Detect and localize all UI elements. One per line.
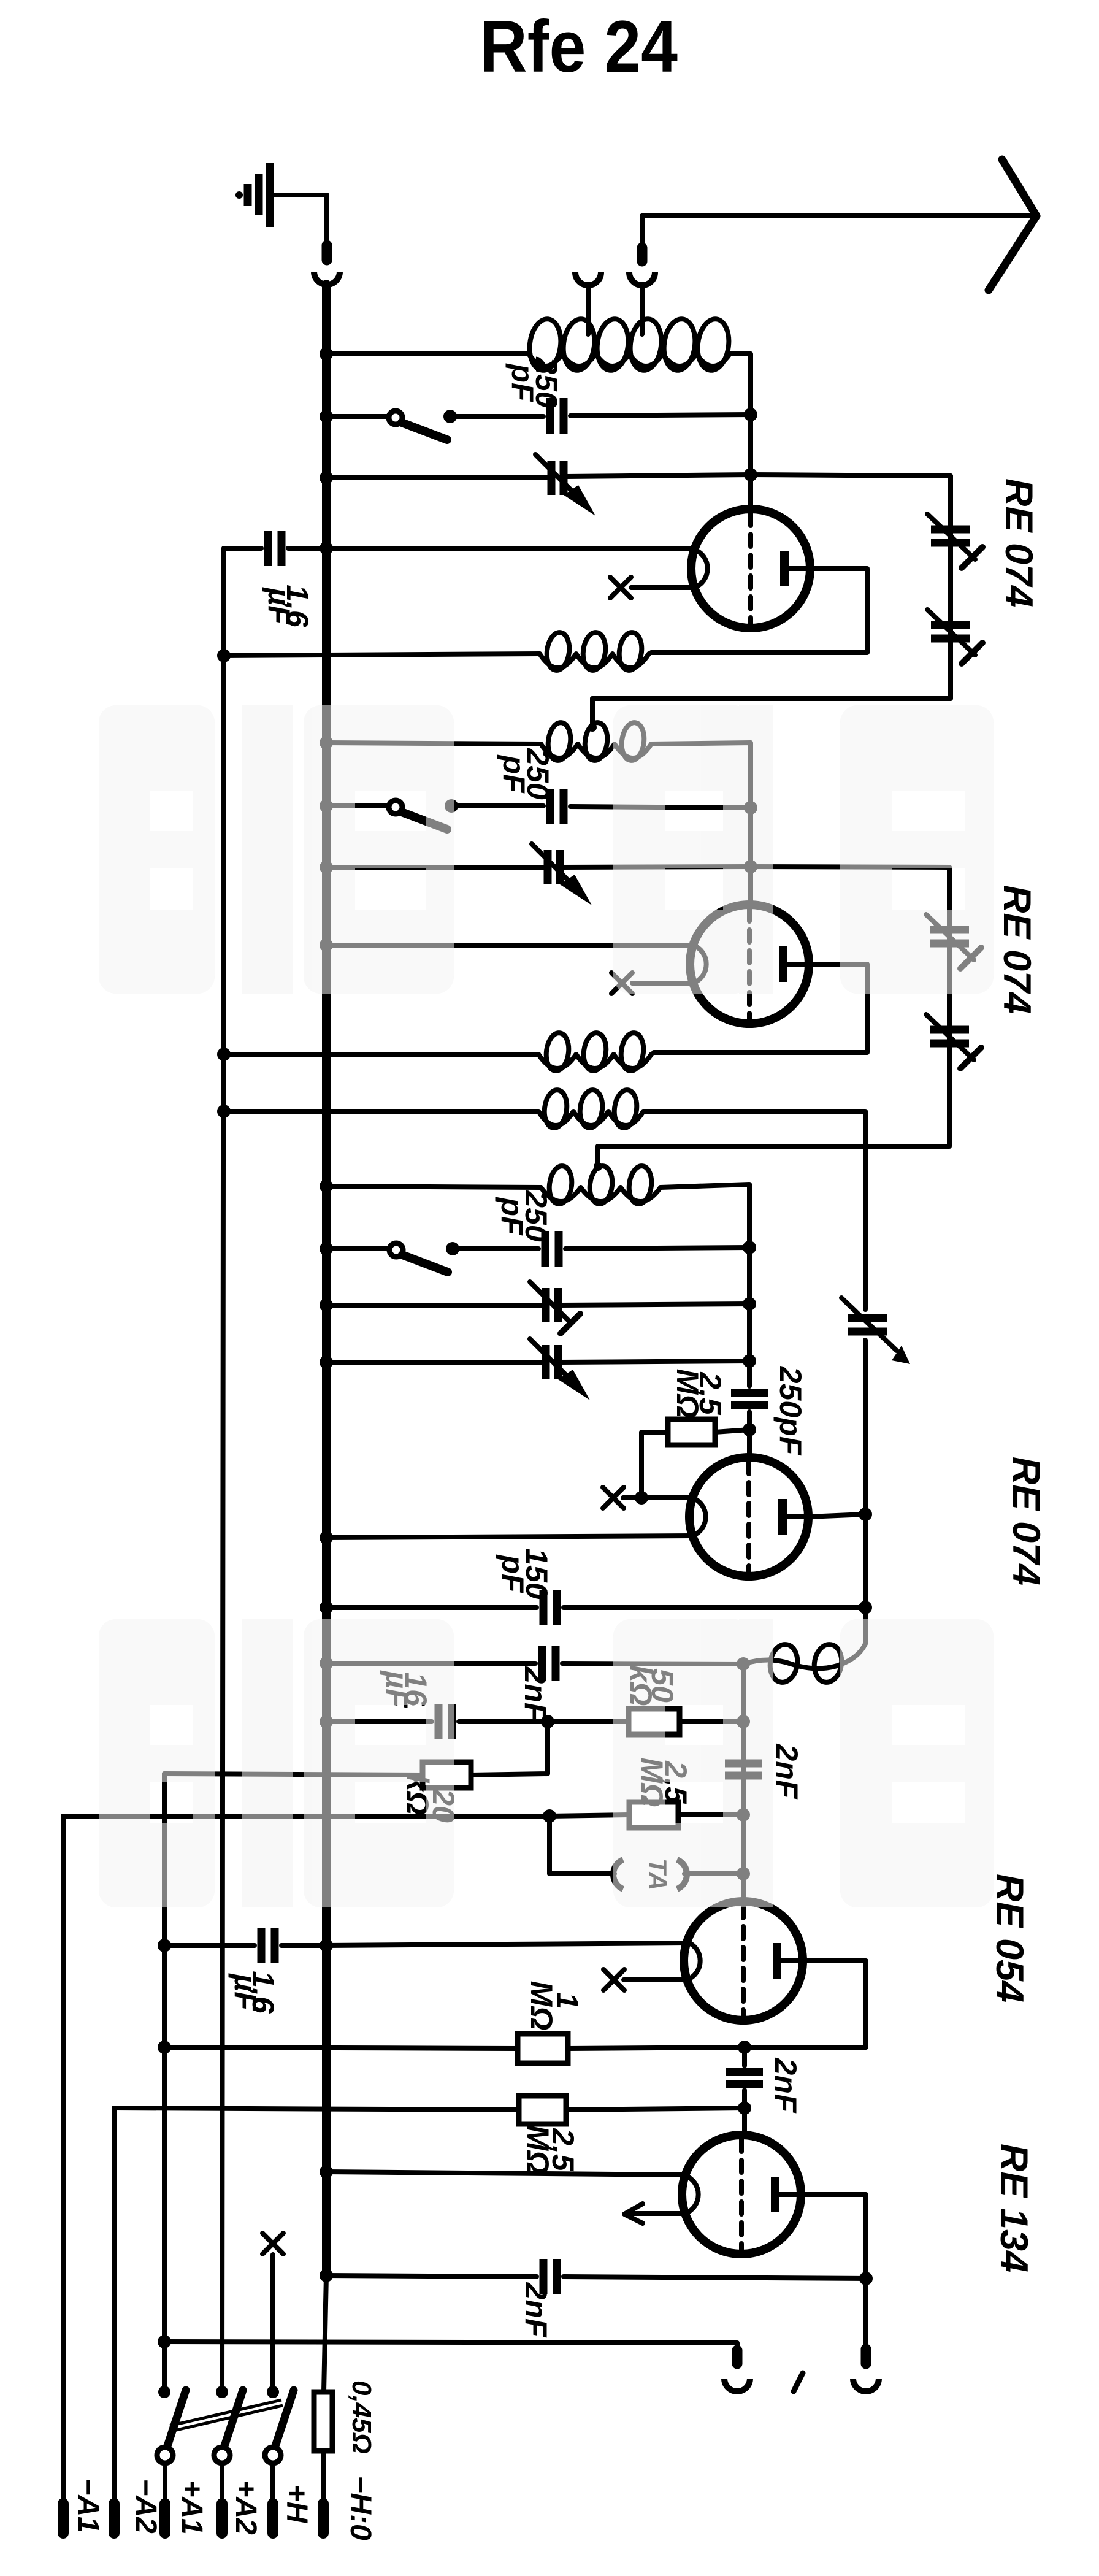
- wire +A2 rail to tickler coil L6: [224, 1109, 538, 1114]
- node +A2 rail L3: [217, 649, 231, 662]
- battery switch pivot 2: [214, 2447, 230, 2463]
- node +A1-output line: [158, 2335, 171, 2348]
- jack socket output right: [853, 2379, 879, 2391]
- wire TA branch down and right: [549, 1816, 615, 1874]
- node +A2 rail L6: [217, 1105, 231, 1118]
- wire ground to plug pin: [274, 195, 327, 244]
- wire grid lead tube V4: [741, 1874, 746, 1903]
- terminal +H: [267, 2504, 278, 2533]
- resistor R5 1 Mohm: [518, 2034, 568, 2063]
- wire CV3 to grid node 3: [561, 1304, 749, 1305]
- wire down to choke L7: [863, 1608, 868, 1644]
- rail +A1: [162, 1774, 167, 2391]
- svg-text:RE 074: RE 074: [997, 478, 1040, 607]
- wire output left line: [164, 2342, 737, 2363]
- svg-text:Rfe 24: Rfe 24: [480, 6, 678, 88]
- wire CV5 down to V3 plate node: [863, 1340, 868, 1512]
- svg-text:RE 054: RE 054: [988, 1874, 1031, 2003]
- wire C8 to resistor R2: [459, 1719, 629, 1724]
- svg-text:pF: pF: [496, 1554, 530, 1593]
- wire R5 to V5 grid node: [568, 2047, 745, 2049]
- wire CV1 to grid node: [566, 475, 751, 477]
- ground symbol: [235, 163, 270, 227]
- node switch S3 contact: [446, 1242, 459, 1255]
- wire +A1 rail to resistor R3: [164, 1774, 423, 1775]
- trimmer capacitor CT3: [926, 914, 981, 968]
- node AF chain R2: [737, 1715, 750, 1728]
- wire +A1 rail to capacitor C10: [164, 1943, 255, 1948]
- svg-text:+A2: +A2: [229, 2480, 262, 2535]
- wire trimmer branch down and left to L2 tap: [592, 476, 951, 699]
- node bus-C8: [320, 1715, 333, 1728]
- wire C12 to output node: [564, 2277, 866, 2279]
- wire bus to switch S1: [326, 414, 389, 419]
- inductor L1 (antenna coil): [527, 317, 732, 372]
- wire bus to variable capacitor CV2: [326, 865, 545, 870]
- wire +A1 rail to resistor R5: [164, 2047, 518, 2049]
- wire x to tube V3 filament top: [623, 1495, 692, 1500]
- heater arrow lead V5: [624, 2204, 685, 2223]
- wire bus to antenna coil L1: [326, 351, 529, 356]
- wire plate node down to C6 node: [863, 1514, 868, 1606]
- inductor L3 (T2 primary): [540, 631, 649, 672]
- svg-text:2nF: 2nF: [770, 1744, 804, 1800]
- switch S3 (range switch): [389, 1243, 448, 1272]
- plug pin (antenna): [637, 248, 648, 261]
- node AF chain TA: [737, 1867, 750, 1880]
- wire bus to variable capacitor CV4: [326, 1360, 543, 1365]
- main bus (grounded filament rail): [322, 284, 331, 2275]
- resistor R1 2.5 Mohm (grid leak): [668, 1419, 715, 1445]
- heater supply x mark: [262, 2233, 283, 2254]
- variable capacitor CV4: [530, 1339, 590, 1400]
- variable capacitor CV5 (regeneration): [841, 1298, 910, 1364]
- node choke left: [737, 1657, 750, 1671]
- svg-text:pF: pF: [505, 362, 540, 402]
- wire C4 to grid node 3: [565, 1248, 749, 1249]
- wire S3 to C4: [453, 1246, 538, 1251]
- wire V4 plate to grid node V5: [745, 1961, 866, 2047]
- svg-text:0,45Ω: 0,45Ω: [347, 2380, 377, 2454]
- svg-text:RE 074: RE 074: [1005, 1457, 1047, 1585]
- node output right: [859, 2272, 873, 2285]
- node bus-CV3: [320, 1298, 333, 1312]
- wire bus to coil L2: [326, 743, 541, 744]
- node +A2 rail L5: [217, 1048, 231, 1061]
- wire pivot1 to terminal: [163, 2463, 167, 2506]
- capacitor C12 2nF: [543, 2259, 557, 2294]
- switch pole pin +A1: [158, 2386, 170, 2398]
- wire -A2 rail to resistor R6: [114, 2108, 519, 2110]
- resistor R6 2.5 Mohm: [519, 2096, 566, 2124]
- svg-text:250pF: 250pF: [773, 1366, 808, 1456]
- node L4 tap: [594, 1162, 602, 1171]
- antenna arrow symbol: [989, 159, 1036, 290]
- variable capacitor CV3: [530, 1282, 580, 1333]
- svg-text:MΩ: MΩ: [524, 1981, 559, 2031]
- wire tube V2 filament to heater mark: [632, 981, 693, 986]
- wire bus to variable capacitor CV1: [326, 475, 549, 480]
- wire L1 to grid node, corner down: [730, 354, 751, 412]
- node C1 right: [744, 408, 757, 421]
- wire AF chain vertical: [741, 1664, 746, 1901]
- wire V3 plate to node: [808, 1514, 865, 1517]
- wire bus to tube V2 filament top: [326, 943, 693, 948]
- resistor R7 0.45 ohm: [314, 2392, 332, 2451]
- plug pin (ground lead): [322, 245, 332, 260]
- wire pivot3 to terminal: [270, 2463, 275, 2506]
- wire C5 to tube V3 grid: [747, 1412, 752, 1457]
- switch S1 (range switch): [389, 411, 447, 440]
- wire grid node 2 to trimmer branch 2: [751, 867, 949, 867]
- svg-text:2nF: 2nF: [519, 2282, 553, 2338]
- node bus-L2: [320, 736, 333, 749]
- wire L2 to grid node 2: [651, 743, 751, 805]
- wire C3 to grid node 2: [570, 807, 751, 808]
- watermark overlay band 2: [99, 1619, 994, 1907]
- watermark overlay band 1: [99, 705, 994, 994]
- node C3 right: [744, 801, 757, 815]
- wire TA to AF chain: [684, 1871, 743, 1876]
- wire tap into coil L2: [590, 699, 595, 725]
- wire bus to tube V5 filament top: [326, 2172, 685, 2175]
- wire tap1 stem to coil L1: [586, 285, 591, 334]
- capacitor C3 250pF: [550, 789, 564, 824]
- capacitor C10 1.6uF: [261, 1928, 275, 1963]
- wire grid column tube V1: [748, 415, 753, 509]
- svg-text:pF: pF: [495, 1196, 529, 1236]
- wire bus to coil L4: [326, 1186, 541, 1187]
- rail -A1: [61, 1816, 66, 2509]
- trimmer capacitor CT4: [926, 1014, 981, 1068]
- wire bus to tube V1 filament top: [326, 548, 694, 549]
- jack socket tap 2: [629, 272, 655, 285]
- wire tap2 stem to coil L1: [640, 285, 645, 334]
- capacitor C2 1.6uF: [268, 531, 281, 566]
- rail -A2: [112, 2108, 117, 2509]
- jack socket output left: [724, 2379, 750, 2391]
- wire bus to variable capacitor CV3: [326, 1303, 543, 1308]
- jack socket tap 1: [575, 272, 601, 285]
- wire C6 to plate branch: [564, 1605, 865, 1610]
- trimmer capacitor CT1: [927, 514, 982, 568]
- wire tube V1 filament to heater mark: [631, 585, 694, 590]
- variable capacitor CV2 (tuning): [532, 844, 592, 905]
- wire S2 to C3: [451, 803, 543, 808]
- wire S1 to C1: [450, 414, 543, 419]
- battery switch lever 3: [273, 2390, 294, 2453]
- wire T3 primary to +A2 rail: [224, 1052, 538, 1057]
- wire L6 to regeneration capacitor CV5: [643, 1111, 865, 1309]
- node bus-C7: [320, 1657, 333, 1670]
- rail +H: [270, 2255, 275, 2391]
- node switch S1 contact: [443, 410, 457, 423]
- node grid 2: [744, 860, 757, 873]
- wire output right down to plug: [863, 2279, 868, 2363]
- battery switch link bar: [170, 2400, 283, 2431]
- wire grid node to C11: [742, 2047, 747, 2066]
- wire bus to capacitor C7: [326, 1661, 535, 1666]
- switch pole pin +A2: [216, 2386, 228, 2398]
- wire V1 plate to transformer T2 primary: [651, 569, 867, 653]
- wire CV4 to grid node 3b: [561, 1361, 749, 1362]
- triode V2 RE 074: [690, 905, 809, 1024]
- wire C10 to bus: [281, 1943, 326, 1948]
- wire bus to tube V4 filament top: [326, 1943, 687, 1945]
- wire C11 to tube V5 grid: [742, 2090, 747, 2136]
- svg-text:+A1: +A1: [175, 2480, 208, 2534]
- node bus-switch1: [320, 410, 333, 423]
- wire bus to capacitor C8: [326, 1719, 432, 1724]
- wire grid node to trimmer branch: [751, 475, 951, 476]
- resistor R3 20 kohm: [423, 1762, 471, 1788]
- wire bus to capacitor C6: [326, 1605, 537, 1610]
- node bus-C6: [320, 1601, 333, 1614]
- terminal -H0: [318, 2504, 329, 2533]
- wire tube V4 filament to heater mark: [624, 1977, 687, 1982]
- svg-text:MΩ: MΩ: [521, 2125, 555, 2175]
- node bus-CV4: [320, 1355, 333, 1369]
- terminal +A1: [159, 2504, 170, 2533]
- trimmer capacitor CT2: [927, 610, 982, 664]
- inductor L2 (T2 secondary): [541, 721, 651, 762]
- wire -A1 rail to node: [63, 1814, 549, 1819]
- inductor L5 (T3 primary): [538, 1032, 651, 1072]
- jack socket at bus top: [314, 272, 340, 285]
- wire L4 to grid node 3: [661, 1184, 749, 1245]
- wire grid column tube V2: [748, 808, 753, 906]
- wire antenna lead-in: [642, 213, 1038, 218]
- node L2 tap: [588, 723, 597, 732]
- node bus-C2: [320, 542, 333, 555]
- node grid 1: [744, 468, 757, 481]
- battery switch lever 2: [222, 2390, 243, 2453]
- node C6 right: [859, 1601, 872, 1614]
- wire R1 to grid node: [715, 1430, 749, 1432]
- node bus-L1: [320, 347, 333, 361]
- svg-text:µF: µF: [262, 586, 296, 625]
- capacitor C1 250pF: [550, 398, 564, 434]
- node V5 grid top: [738, 2041, 751, 2054]
- resistor R2 50 kohm: [629, 1709, 680, 1735]
- triode V5 RE 134: [682, 2135, 801, 2254]
- node grid3 a: [743, 1297, 756, 1311]
- node bus-switch2: [320, 799, 333, 813]
- plug pin output right: [861, 2349, 871, 2364]
- watermark underlay band 2: [99, 1619, 994, 1907]
- node bus-V5: [320, 2165, 333, 2179]
- wire CV2 to grid node 2: [562, 867, 751, 867]
- wire bus to switch S3: [326, 1246, 389, 1251]
- svg-text:2nF: 2nF: [518, 1666, 553, 1722]
- wire bus to capacitor C12: [326, 2275, 537, 2277]
- svg-text:−H:0: −H:0: [344, 2475, 377, 2540]
- svg-text:RE 134: RE 134: [992, 2144, 1035, 2272]
- node TA branch: [543, 1809, 556, 1823]
- plug pin output left: [732, 2350, 743, 2364]
- node bus-CV1: [320, 471, 333, 485]
- node V3 filament-gridleak: [635, 1491, 648, 1505]
- node bus bottom: [320, 2269, 333, 2282]
- wire grid column to grid capacitor C5: [747, 1248, 752, 1386]
- jack TA right contact: [677, 1860, 687, 1889]
- node V5 gridleak: [738, 2101, 751, 2115]
- wire antenna down to plug: [640, 216, 645, 245]
- wire R1 left down to filament node: [641, 1432, 668, 1498]
- heater connection x V3: [603, 1487, 624, 1508]
- node +A1 C10: [158, 1939, 171, 1952]
- capacitor C5 250pF (grid capacitor): [731, 1393, 768, 1405]
- battery switch pivot 1: [157, 2447, 173, 2463]
- svg-text:−A1: −A1: [72, 2478, 104, 2532]
- wire R4 to AF chain: [678, 1812, 743, 1817]
- node bus-switch3: [320, 1242, 333, 1255]
- inductor L6 (regeneration coil): [538, 1089, 643, 1129]
- terminal -A1: [58, 2504, 69, 2533]
- jack TA left contact: [613, 1860, 623, 1889]
- svg-text:+H: +H: [280, 2485, 313, 2524]
- svg-text:pF: pF: [497, 754, 531, 794]
- node grid3 b: [743, 1354, 756, 1368]
- capacitor C8 16uF: [438, 1704, 452, 1739]
- wire bus to switch S2: [326, 803, 389, 808]
- wire C1 to grid node: [570, 415, 751, 416]
- wire +A2 rail to C2: [224, 546, 261, 551]
- triode V1 RE 074: [691, 509, 810, 628]
- node V3 plate: [859, 1508, 872, 1521]
- node C4 right: [743, 1241, 756, 1254]
- triode V4 RE 054: [684, 1901, 803, 2020]
- battery switch lever 1: [165, 2390, 186, 2453]
- switch S2 (range switch): [389, 800, 447, 829]
- svg-text:RE 074: RE 074: [995, 885, 1038, 1014]
- capacitor C11 2nF: [726, 2072, 763, 2084]
- wire V5 plate down: [801, 2195, 866, 2277]
- wire bus to tube V3 filament bottom: [326, 1536, 692, 1538]
- rail +A2: [222, 548, 224, 2391]
- node grid leak: [743, 1423, 756, 1436]
- switch pole pin +H: [267, 2386, 279, 2398]
- inductor L7 (AF choke): [743, 1643, 865, 1684]
- node bus-V3: [320, 1531, 333, 1544]
- wire trimmer branch 2 down to L4 tap: [598, 867, 949, 1146]
- node bus-C10: [320, 1939, 333, 1952]
- wire bus to resistor R7: [324, 2275, 326, 2392]
- wire R3 up to node: [471, 1722, 548, 1775]
- resistor R4 2.5 Mohm: [629, 1802, 678, 1828]
- wire T2 primary to +A2 rail: [224, 654, 540, 656]
- wire V2 plate to T3 primary: [654, 964, 867, 1052]
- wire tap into coil L4: [595, 1146, 600, 1164]
- node AF chain R4: [737, 1808, 750, 1822]
- terminal -A2: [109, 2504, 120, 2533]
- svg-text:MΩ: MΩ: [670, 1369, 705, 1419]
- battery switch pivot 3: [265, 2447, 281, 2463]
- node bus-L4: [320, 1179, 333, 1193]
- inductor L4 (T3 secondary): [541, 1165, 661, 1205]
- node R3 top: [541, 1715, 554, 1728]
- svg-text:−A2: −A2: [129, 2478, 162, 2534]
- heater connection x V2: [611, 973, 632, 994]
- watermark underlay band 1: [99, 705, 994, 994]
- node bus-CV2: [320, 861, 333, 874]
- label output L: [794, 2373, 803, 2391]
- node switch S2 contact: [445, 799, 458, 813]
- wire R2 to AF chain: [680, 1719, 743, 1724]
- heater connection x V1: [610, 577, 631, 598]
- capacitor C4 250pF: [545, 1231, 559, 1267]
- capacitor C9 2nF: [725, 1763, 762, 1776]
- node bus-V2-filament: [320, 938, 333, 952]
- terminal +A2: [216, 2504, 228, 2533]
- capacitor C6 150pF: [543, 1590, 557, 1625]
- capacitor C7 2nF: [542, 1646, 556, 1681]
- svg-text:µF: µF: [228, 1972, 262, 2011]
- wire R7 to terminal -H0: [321, 2451, 326, 2506]
- svg-text:2nF: 2nF: [768, 2058, 803, 2114]
- wire C2 to bus: [288, 546, 326, 551]
- heater connection x V4: [603, 1969, 624, 1990]
- variable capacitor CV1 (tuning): [535, 454, 595, 516]
- wire C7 to choke node: [562, 1663, 743, 1664]
- wire R6 to V5 grid node: [566, 2108, 745, 2110]
- triode V3 RE 074 (detector): [689, 1457, 808, 1576]
- wire node to resistor R4: [549, 1815, 629, 1816]
- wire pivot2 to terminal: [220, 2463, 224, 2506]
- node +A1 rail R5: [158, 2041, 171, 2054]
